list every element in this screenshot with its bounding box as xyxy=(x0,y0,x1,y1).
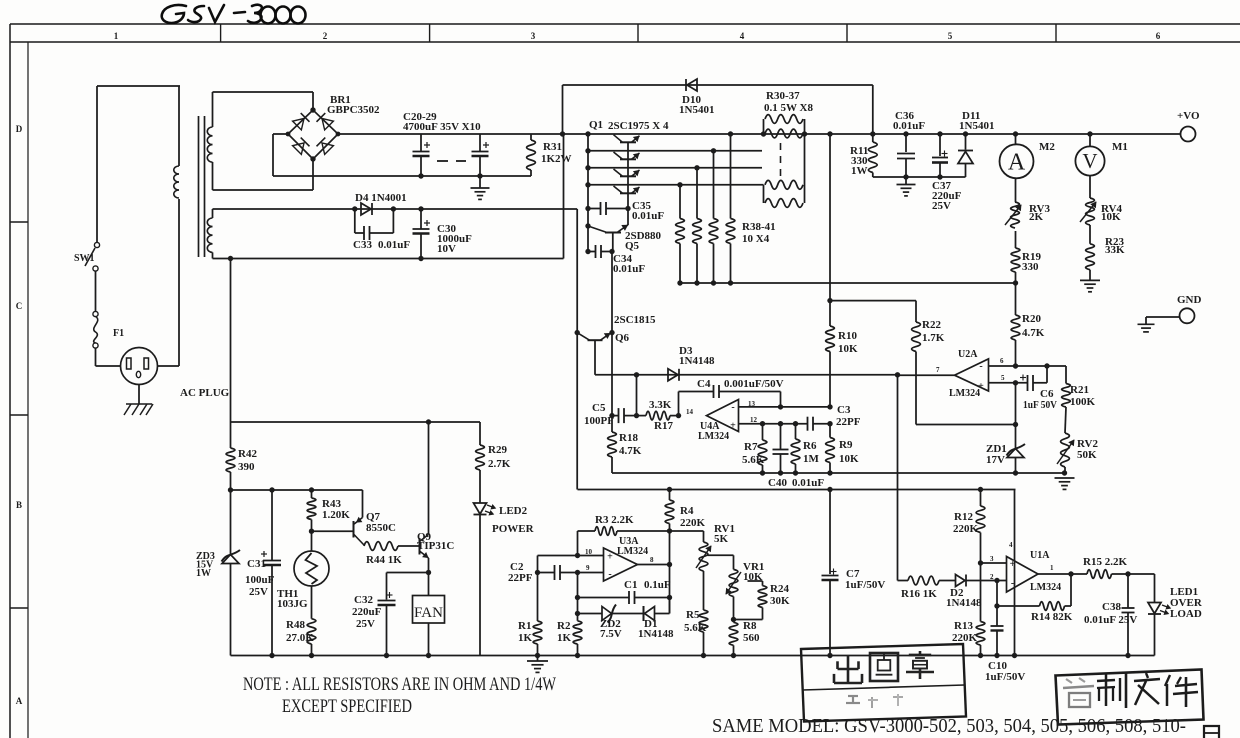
svg-text:10K: 10K xyxy=(839,453,859,465)
svg-text:1: 1 xyxy=(1050,564,1054,572)
op-amp U4A LM324 xyxy=(686,400,758,443)
svg-text:D4 1N4001: D4 1N4001 xyxy=(355,192,407,204)
resistor bank R30-37 0.1 5W X8 xyxy=(764,90,814,207)
capacitor C30 1000uF 10V xyxy=(413,209,473,259)
svg-text:R17: R17 xyxy=(654,420,673,432)
svg-text:1N5401: 1N5401 xyxy=(959,120,994,132)
ground on analog bus xyxy=(1055,478,1075,489)
capacitor C2 22PF xyxy=(508,561,604,584)
svg-text:1: 1 xyxy=(114,31,119,41)
wire RV1 wiper to VR1 xyxy=(708,555,734,569)
transistor Q1a 2SC1975 xyxy=(589,119,669,142)
svg-text:R44 1K: R44 1K xyxy=(366,554,402,566)
svg-text:NOTE : ALL RESISTORS ARE IN OH: NOTE : ALL RESISTORS ARE IN OHM AND 1/4W xyxy=(243,674,556,695)
capacitor C31 100uF 25V xyxy=(245,490,281,656)
svg-text:9: 9 xyxy=(586,564,590,572)
transistor Q5 2SD880 xyxy=(590,225,662,252)
resistor bank R38-41 10 X4 xyxy=(676,134,776,286)
terminal GND xyxy=(1138,294,1202,332)
svg-text:6: 6 xyxy=(1156,31,1161,41)
wire bias mid line xyxy=(228,487,363,492)
svg-text:0.01uF 25V: 0.01uF 25V xyxy=(1084,614,1137,626)
svg-text:6: 6 xyxy=(1000,357,1004,365)
svg-text:C40: C40 xyxy=(768,477,787,489)
svg-text:0.01uF: 0.01uF xyxy=(613,263,645,275)
svg-text:8: 8 xyxy=(650,556,654,564)
svg-text:Q5: Q5 xyxy=(625,240,640,252)
resistor R24 30K xyxy=(731,581,790,622)
svg-text:8550C: 8550C xyxy=(366,522,396,534)
wire Q9 emitter node xyxy=(387,558,432,575)
svg-text:+: + xyxy=(730,421,736,432)
svg-text:R31: R31 xyxy=(543,141,562,153)
svg-text:25V: 25V xyxy=(249,586,268,598)
wire main ground bus xyxy=(231,653,1155,658)
svg-text:R6: R6 xyxy=(803,440,817,452)
svg-text:4: 4 xyxy=(1009,541,1013,549)
wire analog ground bus xyxy=(612,470,1067,475)
svg-text:0.001uF/50V: 0.001uF/50V xyxy=(724,378,784,390)
svg-text:27.0K: 27.0K xyxy=(286,632,314,644)
wire to C5 node xyxy=(636,375,638,416)
wire sub rail down to lower bus xyxy=(575,209,580,490)
transistor Q7 8550C xyxy=(309,511,396,545)
LED2 POWER xyxy=(474,503,535,656)
svg-text:R10: R10 xyxy=(838,330,857,342)
svg-text:TIP31C: TIP31C xyxy=(417,540,454,552)
svg-text:U2A: U2A xyxy=(958,349,978,360)
resistor R6 1M xyxy=(791,424,819,473)
transistor Q1c xyxy=(614,169,640,176)
svg-text:A: A xyxy=(1008,150,1026,176)
svg-text:R16 1K: R16 1K xyxy=(901,588,937,600)
svg-text:R3 2.2K: R3 2.2K xyxy=(595,514,634,526)
ground symbol on bus xyxy=(527,656,548,673)
resistor R14 82K xyxy=(997,571,1074,623)
wire Q1 base line xyxy=(625,142,630,225)
transistor Q9 TIP31C xyxy=(417,531,454,558)
wire Q1 collector bus xyxy=(585,134,590,254)
resistor R18 4.7K xyxy=(608,416,642,473)
resistor R13 220K xyxy=(952,560,985,655)
svg-text:4.7K: 4.7K xyxy=(619,445,642,457)
svg-text:10 X4: 10 X4 xyxy=(742,233,770,245)
svg-text:103JG: 103JG xyxy=(277,598,308,610)
fuse F1 xyxy=(93,311,124,348)
svg-text:R1: R1 xyxy=(518,620,531,632)
svg-text:22PF: 22PF xyxy=(836,416,861,428)
ground below AC plug xyxy=(124,385,153,416)
capacitor C36 0.01uF xyxy=(893,110,925,177)
svg-text:4.7K: 4.7K xyxy=(1022,327,1045,339)
thermistor TH1 103JG xyxy=(277,531,329,619)
diode D10 1N5401 bypass xyxy=(563,79,873,134)
fan FAN xyxy=(413,573,445,656)
resistor R7 5.6K xyxy=(742,424,767,473)
potentiometer VR1 10K xyxy=(726,561,764,597)
svg-text:3: 3 xyxy=(990,555,994,563)
svg-text:R14 82K: R14 82K xyxy=(1031,611,1073,623)
svg-text:-: - xyxy=(731,402,734,413)
svg-text:C: C xyxy=(16,301,23,311)
wire U2A out to R16 xyxy=(897,375,899,581)
resistor R21 100K xyxy=(1062,384,1096,409)
diode D11 1N5401 xyxy=(958,110,994,177)
zener ZD3 15V 1W xyxy=(196,490,240,656)
svg-text:1W: 1W xyxy=(851,165,868,177)
wire C2 node / pin10 feed xyxy=(535,553,604,575)
svg-text:SW1: SW1 xyxy=(74,253,95,264)
svg-text:560: 560 xyxy=(743,632,760,644)
svg-text:R15 2.2K: R15 2.2K xyxy=(1083,556,1127,568)
wire U1A pin3 xyxy=(981,562,1007,564)
capacitor C1 0.1uF xyxy=(578,579,673,604)
svg-text:25V: 25V xyxy=(932,200,951,212)
svg-text:2SC1975 X 4: 2SC1975 X 4 xyxy=(608,120,669,132)
wire secondary2 bottom xyxy=(213,134,564,261)
svg-text:220uF: 220uF xyxy=(352,606,382,618)
svg-text:5: 5 xyxy=(1001,374,1005,382)
svg-text:Q1: Q1 xyxy=(589,119,603,131)
svg-text:30K: 30K xyxy=(770,595,790,607)
wire top sense feed xyxy=(827,134,832,326)
wire secondary1 to bridge xyxy=(213,92,314,190)
svg-text:LM324: LM324 xyxy=(949,388,980,399)
svg-text:5: 5 xyxy=(948,31,953,41)
svg-text:R18: R18 xyxy=(619,432,638,444)
svg-text:1M: 1M xyxy=(803,453,820,465)
wire secondary2 return drop xyxy=(230,259,232,423)
wire Q6 to D3 line (U2A output line) xyxy=(595,372,900,377)
transformer T1 secondary 1 winding xyxy=(207,127,212,162)
wire AC loop top xyxy=(97,86,180,242)
svg-text:R21: R21 xyxy=(1070,384,1089,396)
svg-text:25V: 25V xyxy=(356,618,375,630)
diode D3 1N4148 xyxy=(668,345,715,381)
terminal +VO xyxy=(1177,110,1200,142)
resistor R2 1K xyxy=(557,573,582,656)
zener ZD2 7.5V and diode D1 1N4148 clamp xyxy=(578,598,674,641)
svg-text:33K: 33K xyxy=(1105,244,1125,256)
svg-text:1.20K: 1.20K xyxy=(322,509,350,521)
svg-text:0.01uF: 0.01uF xyxy=(792,477,824,489)
svg-text:50K: 50K xyxy=(1077,449,1097,461)
svg-text:+: + xyxy=(607,552,613,563)
transistor Q1d xyxy=(614,186,640,193)
wire under R11/C36/C37/D11 xyxy=(873,174,966,179)
svg-text:10K: 10K xyxy=(838,343,858,355)
wire U1A output / resistor R15 2.2K xyxy=(1038,556,1155,578)
wire U2A pin5 / capacitor C6 1uF 50V xyxy=(989,366,1058,411)
wire bridge negative to bottom rail xyxy=(273,132,290,176)
capacitor C38 0.01uF 25V xyxy=(1084,574,1137,656)
potentiometer RV4 10K xyxy=(1080,176,1123,225)
resistor R1 1K xyxy=(518,573,542,656)
svg-text:1uF/50V: 1uF/50V xyxy=(985,671,1025,683)
transformer T1 core xyxy=(199,116,205,257)
capacitor C4 0.001uF/50V xyxy=(679,378,784,416)
svg-text:R20: R20 xyxy=(1022,313,1041,325)
wire U3A output xyxy=(638,562,673,567)
svg-text:100uF: 100uF xyxy=(245,574,275,586)
svg-text:AC PLUG: AC PLUG xyxy=(180,387,230,399)
resistor R17 3.3K xyxy=(637,399,682,432)
svg-text:F1: F1 xyxy=(113,328,124,339)
switch SW1 xyxy=(74,242,100,271)
svg-text:R12: R12 xyxy=(954,511,973,523)
svg-text:LM324: LM324 xyxy=(698,431,729,442)
svg-text:LED2: LED2 xyxy=(499,505,528,517)
svg-text:390: 390 xyxy=(238,461,255,473)
resistor R31 1K2W xyxy=(527,134,572,176)
op-amp U2A LM324 xyxy=(936,349,1005,399)
transformer T1 secondary 2 winding xyxy=(207,218,212,252)
svg-text:5K: 5K xyxy=(714,533,729,545)
svg-text:0.1 5W X8: 0.1 5W X8 xyxy=(764,102,813,114)
wire U2A output xyxy=(898,374,955,376)
potentiometer RV2 50K xyxy=(1057,407,1099,473)
svg-text:R29: R29 xyxy=(488,444,507,456)
svg-text:LM324: LM324 xyxy=(1030,582,1061,593)
svg-text:5.6K: 5.6K xyxy=(742,454,765,466)
wire low volt bus xyxy=(578,487,1016,492)
svg-text:M1: M1 xyxy=(1112,141,1128,153)
svg-text:10: 10 xyxy=(585,548,593,556)
transistor Q1b xyxy=(614,152,640,159)
svg-text:R13: R13 xyxy=(954,620,973,632)
ammeter M2 xyxy=(1000,134,1056,178)
svg-text:R8: R8 xyxy=(743,620,757,632)
ground below C36 xyxy=(897,177,916,196)
svg-text:4: 4 xyxy=(740,31,745,41)
wire AC plug to loop right side xyxy=(158,199,180,366)
svg-text:C33: C33 xyxy=(353,239,372,251)
svg-text:+VO: +VO xyxy=(1177,110,1200,122)
svg-text:R5: R5 xyxy=(686,609,700,621)
svg-text:1K: 1K xyxy=(518,632,533,644)
resistor R3 2.2K xyxy=(578,514,704,556)
svg-text:R22: R22 xyxy=(922,319,941,331)
resistor R29 2.7K xyxy=(476,422,511,503)
zener ZD1 17V xyxy=(986,383,1025,473)
svg-text:C38: C38 xyxy=(1102,601,1121,613)
main positive rail xyxy=(336,131,1180,136)
svg-text:SAME MODEL: GSV-3000-502, 503: SAME MODEL: GSV-3000-502, 503, 504, 505,… xyxy=(712,715,1186,737)
resistor R43 1.20K xyxy=(307,490,350,531)
capacitor C3 22PF xyxy=(808,404,861,431)
svg-text:EXCEPT SPECIFIED: EXCEPT SPECIFIED xyxy=(282,696,412,717)
diode D2 1N4148 xyxy=(946,575,1007,610)
wire Q9 collector xyxy=(428,422,430,535)
wire U4A pin12 line xyxy=(739,421,808,426)
ground below C20-29 xyxy=(471,176,490,199)
capacitor C33 0.01uF xyxy=(353,209,410,251)
svg-text:220K: 220K xyxy=(680,517,706,529)
svg-text:1uF 50V: 1uF 50V xyxy=(1023,399,1057,411)
svg-text:1N5401: 1N5401 xyxy=(679,104,714,116)
capacitor C40 0.01uF xyxy=(768,424,824,489)
potentiometer RV3 2K xyxy=(1005,178,1051,228)
transistor Q6 2SC1815 xyxy=(579,314,657,375)
svg-text:R48: R48 xyxy=(286,619,305,631)
resistor R12 220K xyxy=(953,490,985,564)
capacitor C35 0.01uF xyxy=(588,200,664,222)
op-amp U3A LM324 xyxy=(585,536,654,581)
svg-text:1W: 1W xyxy=(196,568,211,579)
svg-text:100K: 100K xyxy=(1070,396,1096,408)
svg-text:7: 7 xyxy=(936,366,940,374)
svg-text:-: - xyxy=(608,569,611,580)
resistor R8 560 xyxy=(729,597,760,656)
svg-text:22PF: 22PF xyxy=(508,572,533,584)
svg-text:0.01uF: 0.01uF xyxy=(893,120,925,132)
svg-text:2SC1815: 2SC1815 xyxy=(614,314,656,326)
resistor R23 33K xyxy=(1086,225,1125,280)
resistor R42 390 xyxy=(226,422,257,490)
resistor R48 27.0K xyxy=(286,619,316,656)
svg-text:U1A: U1A xyxy=(1030,550,1050,561)
svg-text:C31: C31 xyxy=(247,558,266,570)
wire R22 branch xyxy=(830,301,916,322)
svg-text:1N4148: 1N4148 xyxy=(638,628,674,640)
svg-text:C5: C5 xyxy=(592,402,606,414)
svg-text:FAN: FAN xyxy=(414,605,443,621)
svg-text:5.6K: 5.6K xyxy=(684,622,707,634)
capacitor C10 1uF/50V xyxy=(985,581,1025,684)
AC plug xyxy=(121,348,230,400)
resistor R16 1K xyxy=(898,576,956,600)
svg-text:100PF: 100PF xyxy=(584,415,614,427)
wire Q5 base line xyxy=(609,233,614,416)
stamp guan-zhi-wen-jian box xyxy=(1056,670,1204,725)
title GSV-3000 (handwritten) xyxy=(162,5,306,24)
svg-text:1K: 1K xyxy=(557,632,572,644)
svg-text:1N4148: 1N4148 xyxy=(946,597,982,609)
svg-text:1uF/50V: 1uF/50V xyxy=(845,579,885,591)
wire emitter sense bus xyxy=(680,282,1016,284)
svg-text:-: - xyxy=(979,361,982,372)
wire SW1 to F1 xyxy=(95,271,97,312)
svg-text:R4: R4 xyxy=(680,505,694,517)
svg-text:R9: R9 xyxy=(839,439,853,451)
svg-text:R24: R24 xyxy=(770,583,789,595)
svg-text:R42: R42 xyxy=(238,448,257,460)
capacitor C37 220uF 25V xyxy=(932,134,962,212)
bottom rail (bridge minus) xyxy=(273,173,531,178)
svg-text:C32: C32 xyxy=(354,594,373,606)
svg-text:LOAD: LOAD xyxy=(1170,608,1202,620)
svg-text:2: 2 xyxy=(323,31,328,41)
capacitor C5 100PF xyxy=(584,402,639,427)
svg-text:2K: 2K xyxy=(1029,211,1044,223)
svg-text:C1: C1 xyxy=(624,579,637,591)
wire U1A pin4 supply xyxy=(1014,490,1016,656)
svg-text:R2: R2 xyxy=(557,620,571,632)
svg-text:17V: 17V xyxy=(986,454,1005,466)
svg-text:1N4148: 1N4148 xyxy=(679,355,715,367)
capacitor C7 1uF/50V xyxy=(822,490,886,656)
svg-text:0.1uF: 0.1uF xyxy=(644,579,671,591)
bridge rectifier BR1 GBPC3502 xyxy=(288,94,380,162)
svg-text:1.7K: 1.7K xyxy=(922,332,945,344)
svg-text:GBPC3502: GBPC3502 xyxy=(327,104,380,116)
svg-text:M2: M2 xyxy=(1039,141,1055,153)
resistor R19 330 xyxy=(1011,231,1041,283)
wire bias top line xyxy=(231,419,481,424)
resistor R11 330 1W xyxy=(850,134,877,177)
resistor R22 1.7K xyxy=(912,319,1016,425)
capacitor C20-29 bank xyxy=(403,111,489,176)
wire secondary2 top rail xyxy=(213,206,578,218)
svg-text:330: 330 xyxy=(1022,261,1039,273)
stamp chu-tu-zhang box xyxy=(801,644,966,722)
svg-text:1K2W: 1K2W xyxy=(541,153,572,165)
ground below R23 xyxy=(1080,280,1100,291)
voltmeter M1 xyxy=(1075,134,1127,176)
svg-text:LM324: LM324 xyxy=(617,546,648,557)
capacitor C32 220uF 25V xyxy=(352,573,396,656)
svg-text:3.3K: 3.3K xyxy=(649,399,672,411)
resistor R44 1K xyxy=(364,542,420,566)
resistor R5 5.6K xyxy=(684,571,708,656)
svg-text:0.01uF: 0.01uF xyxy=(632,210,664,222)
svg-text:R30-37: R30-37 xyxy=(766,90,800,102)
svg-text:14: 14 xyxy=(686,408,694,416)
resistor R4 220K xyxy=(665,490,705,614)
svg-text:12: 12 xyxy=(750,416,758,424)
svg-text:3: 3 xyxy=(531,31,536,41)
svg-text:R7: R7 xyxy=(744,441,758,453)
capacitor C34 0.01uF xyxy=(588,245,645,275)
wire U4A pin13 line xyxy=(739,404,833,409)
svg-text:10V: 10V xyxy=(437,243,456,255)
svg-text:R38-41: R38-41 xyxy=(742,221,776,233)
note text xyxy=(243,674,556,717)
partial stamp mark bottom right xyxy=(1204,726,1219,738)
wire U2A pin6 xyxy=(989,363,1067,383)
same model text xyxy=(712,715,1186,737)
svg-text:10K: 10K xyxy=(1101,211,1121,223)
svg-text:C3: C3 xyxy=(837,404,851,416)
svg-text:B: B xyxy=(16,500,22,510)
resistor R20 4.7K xyxy=(1011,280,1045,366)
potentiometer RV1 5K xyxy=(696,523,735,571)
svg-text:V: V xyxy=(1082,149,1097,173)
wire Q7 emitter feed xyxy=(362,490,364,518)
svg-text:2.7K: 2.7K xyxy=(488,458,511,470)
svg-text:2: 2 xyxy=(990,573,994,581)
svg-text:Q6: Q6 xyxy=(615,332,630,344)
svg-text:C4: C4 xyxy=(697,378,711,390)
diode D4 1N4001 xyxy=(355,192,407,215)
svg-text:A: A xyxy=(16,696,23,706)
transformer T1 primary winding xyxy=(174,86,179,198)
svg-text:4700uF 35V X10: 4700uF 35V X10 xyxy=(403,121,481,133)
svg-text:0.01uF: 0.01uF xyxy=(378,239,410,251)
wire F1 to AC plug xyxy=(96,348,121,366)
LED1 OVER LOAD xyxy=(1148,574,1203,656)
svg-text:D: D xyxy=(16,124,23,134)
resistor R9 10K xyxy=(826,424,859,473)
wire Q1 emitter rows xyxy=(588,148,764,187)
svg-text:GND: GND xyxy=(1177,294,1202,306)
resistor R10 10K xyxy=(826,326,858,407)
svg-text:7.5V: 7.5V xyxy=(600,628,622,640)
svg-text:POWER: POWER xyxy=(492,523,535,535)
svg-text:220K: 220K xyxy=(952,632,978,644)
op-amp U1A LM324 xyxy=(990,541,1061,593)
svg-text:220K: 220K xyxy=(953,523,979,535)
